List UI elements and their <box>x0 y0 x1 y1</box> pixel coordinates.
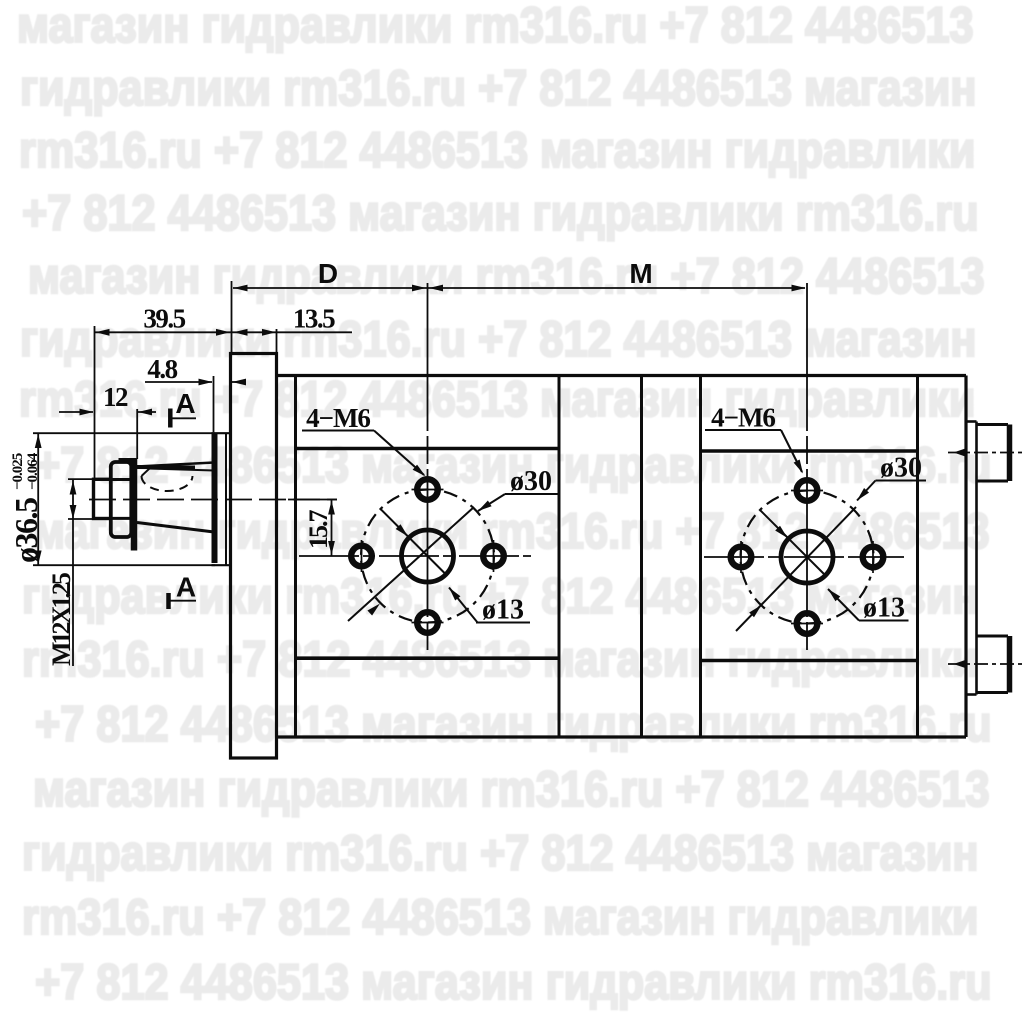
svg-text:M: M <box>629 258 652 289</box>
svg-text:4−M6: 4−M6 <box>711 403 775 433</box>
svg-text:12: 12 <box>103 382 128 412</box>
svg-text:13.5: 13.5 <box>293 304 335 334</box>
svg-text:A: A <box>175 388 195 419</box>
svg-text:M12X1.25: M12X1.25 <box>47 572 76 666</box>
svg-text:A: A <box>176 572 196 603</box>
svg-text:15.7: 15.7 <box>304 510 333 550</box>
svg-text:ø30: ø30 <box>880 453 922 484</box>
svg-text:4.8: 4.8 <box>147 354 177 384</box>
svg-text:4−M6: 4−M6 <box>306 403 370 433</box>
svg-text:39.5: 39.5 <box>143 304 185 334</box>
svg-text:D: D <box>318 258 338 289</box>
svg-text:−0.064: −0.064 <box>25 452 41 490</box>
svg-text:ø36.5: ø36.5 <box>8 498 44 563</box>
svg-text:ø13: ø13 <box>863 593 905 624</box>
svg-text:ø13: ø13 <box>482 595 524 626</box>
svg-text:−0.025: −0.025 <box>10 453 26 490</box>
svg-text:ø30: ø30 <box>510 466 552 497</box>
